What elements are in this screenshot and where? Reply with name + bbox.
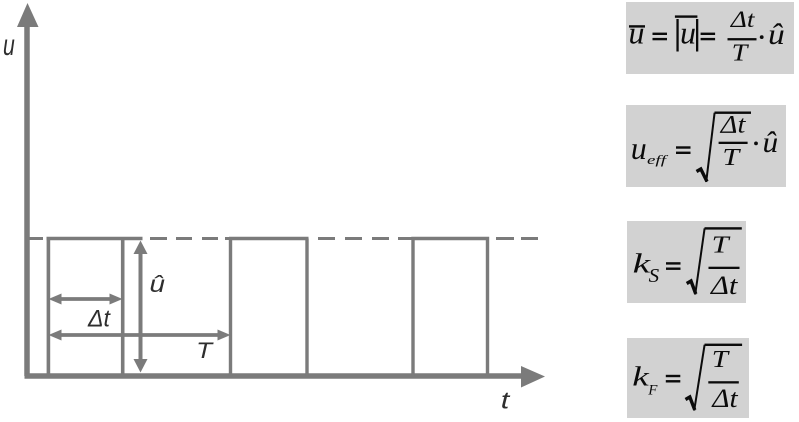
y-axis xyxy=(17,3,39,376)
right bar xyxy=(696,19,698,52)
svg-text:u: u xyxy=(631,130,647,166)
svg-text:S: S xyxy=(649,265,660,287)
formula box 3: crest factor kS xyxy=(627,221,746,303)
pulse 1 xyxy=(47,239,143,377)
svg-text:u: u xyxy=(3,29,15,62)
delta-t double arrow xyxy=(49,294,123,305)
dashed peak level line xyxy=(29,237,538,240)
fraction bar xyxy=(719,142,748,144)
equals xyxy=(666,262,681,264)
radical sign xyxy=(687,281,696,294)
pulse 2 xyxy=(229,239,309,377)
radical sign xyxy=(686,397,695,410)
svg-text:Δt: Δt xyxy=(87,306,111,333)
svg-text:û: û xyxy=(763,126,779,159)
center dot xyxy=(760,35,764,39)
equals 2 xyxy=(701,33,716,35)
fraction bar xyxy=(728,38,757,40)
svg-text:T: T xyxy=(712,347,730,373)
center dot xyxy=(754,142,758,146)
svg-text:T: T xyxy=(712,233,731,259)
overbar of u-bar xyxy=(629,25,645,27)
svg-text:û: û xyxy=(150,271,166,297)
pulse 3 xyxy=(411,239,489,377)
svg-text:T: T xyxy=(196,338,214,363)
left bar xyxy=(676,19,678,52)
svg-text:u: u xyxy=(629,15,645,51)
formula box 1: mean value xyxy=(626,2,794,74)
formula box 4: form factor kF xyxy=(627,338,749,418)
svg-text:t: t xyxy=(501,388,511,415)
svg-text:Δt: Δt xyxy=(720,112,747,139)
svg-text:Δt: Δt xyxy=(711,384,738,413)
svg-text:T: T xyxy=(722,145,741,171)
svg-text:û: û xyxy=(768,18,785,51)
svg-text:u: u xyxy=(680,15,696,51)
u-hat double arrow xyxy=(134,241,148,373)
equals xyxy=(676,146,691,148)
radical sign xyxy=(697,169,708,182)
formula box 2: effective value xyxy=(626,105,786,187)
svg-text:eff: eff xyxy=(647,153,668,167)
svg-text:T: T xyxy=(732,40,750,66)
svg-text:Δt: Δt xyxy=(710,271,738,300)
x-axis xyxy=(25,366,546,388)
svg-text:Δt: Δt xyxy=(730,7,755,33)
T double arrow xyxy=(49,330,231,341)
equals xyxy=(666,375,681,377)
equals 1 xyxy=(653,33,668,35)
fraction bar xyxy=(709,267,740,269)
svg-text:F: F xyxy=(647,383,658,399)
fraction bar xyxy=(708,381,739,383)
overbar of |u| xyxy=(675,15,698,17)
